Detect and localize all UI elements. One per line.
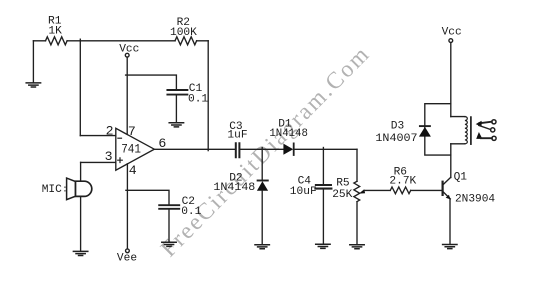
wire top net (R1 right to R2, node A)	[33, 40, 208, 42]
svg-text:1N4007: 1N4007	[375, 133, 417, 145]
wire C2 to ground	[168, 210, 170, 242]
svg-text:2.7K: 2.7K	[389, 175, 416, 187]
ground (R5)	[350, 245, 364, 249]
transistor Q1 2N3904	[442, 182, 444, 195]
wire MIC to ground	[80, 197, 82, 251]
ground (C2)	[162, 242, 176, 246]
capacitor C1	[167, 90, 187, 95]
svg-text:FreeCircuitDiagram.Com: FreeCircuitDiagram.Com	[156, 41, 376, 263]
svg-text:1K: 1K	[48, 25, 62, 37]
wire pin 3	[81, 161, 116, 163]
ground (D2)	[255, 245, 269, 249]
svg-text:1uF: 1uF	[227, 130, 247, 142]
wire emitter to ground	[449, 199, 451, 244]
svg-text:7: 7	[128, 124, 136, 139]
wire R6 to Q1 base	[411, 189, 442, 191]
svg-text:1N4148: 1N4148	[269, 128, 308, 140]
svg-text:741: 741	[121, 141, 141, 156]
capacitor C3	[236, 143, 240, 157]
wire pin 2	[80, 135, 116, 137]
relay core bar	[470, 117, 472, 144]
ground (C1)	[169, 123, 183, 127]
wire node B down to D2	[261, 148, 263, 181]
wire Vcc branch to C1	[126, 75, 177, 89]
wire pin4 junction to C2	[126, 190, 169, 204]
svg-text:MIC: MIC	[42, 184, 62, 196]
ground (R1)	[26, 83, 40, 87]
wire Vcc down to relay	[450, 43, 452, 117]
wire pin4 down	[126, 164, 128, 249]
svg-text:4: 4	[129, 163, 137, 178]
svg-text:25K: 25K	[332, 189, 352, 201]
svg-text:R5: R5	[336, 178, 349, 190]
wire C4 to ground	[322, 190, 324, 244]
wire C1 to ground	[175, 96, 177, 123]
svg-text:D3: D3	[391, 120, 404, 132]
wire node B to R5	[356, 149, 358, 181]
wire D2 to ground	[261, 191, 263, 245]
wire C3 to D1	[240, 148, 283, 150]
resistor R6 2.7K	[390, 187, 410, 194]
wire R1 left to ground	[32, 41, 34, 83]
diode D3 1N4007	[420, 125, 430, 127]
wire D1 to node B	[295, 148, 358, 150]
op-amp U1 741	[116, 128, 155, 170]
svg-text:0.1: 0.1	[181, 206, 201, 218]
wire node B down to C4	[322, 148, 324, 185]
capacitor C2	[159, 205, 179, 209]
ground (MIC)	[73, 251, 87, 255]
svg-text:10uF: 10uF	[290, 186, 317, 198]
pin3 plus sign	[118, 158, 123, 163]
resistor R1	[46, 37, 68, 45]
relay contacts	[492, 120, 496, 124]
wire collector up to relay	[450, 144, 452, 178]
wire relay left branch (D3 parallel)	[425, 104, 451, 155]
wire feedback vertical (R2 right down to output node)	[207, 41, 209, 151]
wire R5 to ground	[356, 202, 358, 245]
svg-text:Vee: Vee	[117, 252, 137, 264]
diode D2 1N4148	[258, 180, 268, 182]
svg-text:0.1: 0.1	[188, 94, 208, 106]
svg-text:2N3904: 2N3904	[455, 194, 495, 206]
capacitor C4	[315, 185, 331, 189]
wire pin3 to MIC	[80, 162, 82, 180]
svg-text:1N4148: 1N4148	[213, 182, 255, 194]
wire output pin6	[154, 148, 235, 150]
wire node A down to pin2	[79, 39, 81, 135]
wire Vcc to pin7	[126, 57, 128, 134]
wiper arrow of R5	[359, 189, 365, 193]
resistor R2	[175, 37, 197, 45]
svg-text:2: 2	[106, 124, 114, 139]
diode D1 1N4148	[283, 144, 293, 155]
pin2 minus sign	[118, 137, 122, 139]
node Vee	[126, 249, 130, 253]
potentiometer R5 25K	[354, 181, 360, 201]
relay K1 coil	[451, 117, 465, 144]
ground (Q1)	[443, 245, 457, 249]
ground (C4)	[316, 244, 330, 248]
svg-text:100K: 100K	[170, 27, 197, 39]
svg-text:Vcc: Vcc	[442, 27, 462, 39]
svg-text:Q1: Q1	[454, 171, 468, 183]
